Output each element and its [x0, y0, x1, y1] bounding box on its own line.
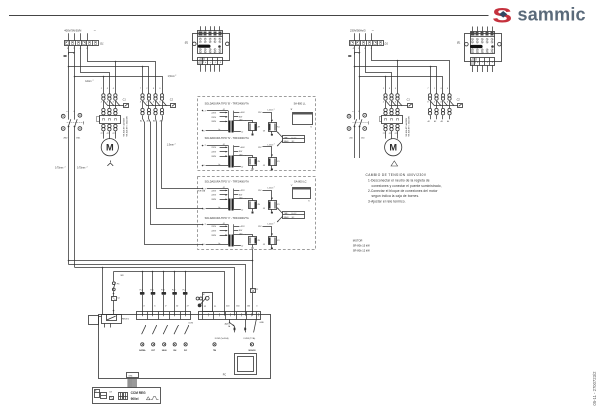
svg-text:13: 13	[176, 305, 179, 307]
svg-text:0: 0	[144, 305, 146, 307]
svg-text:0V: 0V	[263, 165, 266, 167]
wire mains stub R0 above D1	[354, 33, 356, 40]
ribbon cable hatch	[128, 378, 137, 388]
svg-text:2: 2	[274, 223, 275, 225]
earth = mark (left)	[64, 55, 67, 57]
svg-text:A2: A2	[434, 120, 436, 123]
svg-text:2: 2	[433, 102, 435, 104]
fuse Fu3	[163, 272, 165, 293]
svg-text:a: a	[352, 111, 354, 113]
svg-text:5: 5	[395, 88, 397, 90]
svg-text:0V: 0V	[263, 130, 266, 132]
svg-text:2T1: 2T1	[101, 133, 104, 135]
svg-text:'V': 'V'	[291, 185, 294, 187]
svg-text:4T2: 4T2	[389, 133, 392, 135]
spark gap assembly box	[203, 293, 213, 312]
svg-text:FUS2 (5x20 A): FUS2 (5x20 A)	[215, 337, 229, 340]
svg-text:0: 0	[203, 208, 205, 210]
main switch (left, 2-pole)	[61, 111, 83, 139]
svg-text:ZH: ZH	[258, 126, 261, 128]
svg-text:0: 0	[203, 131, 205, 133]
motor M1 circle (left)	[101, 139, 118, 156]
thermal overload relay F1' (right)	[380, 115, 403, 139]
svg-text:4: 4	[358, 111, 360, 113]
svg-text:220V: 220V	[211, 112, 216, 114]
svg-text:1-Desconectar el neutro de la: 1-Desconectar el neutro de la regleta de	[368, 179, 430, 183]
svg-text:42: 42	[223, 109, 225, 111]
svg-text:42: 42	[223, 187, 225, 189]
svg-text:0v: 0v	[241, 210, 243, 212]
svg-text:SR-80b BT 7,5A/230V: SR-80b BT 7,5A/230V	[125, 115, 128, 136]
svg-text:0: 0	[256, 305, 258, 307]
svg-text:AgSnO: AgSnO	[225, 322, 231, 325]
svg-text:2: 2	[363, 48, 366, 50]
svg-text:7: 7	[427, 88, 429, 90]
wire R-a vertical (x=354) D1 to switch	[354, 46, 356, 120]
svg-text:6: 6	[447, 102, 448, 104]
svg-text:C2: C2	[256, 289, 258, 291]
neutral hook arrow (right)	[355, 53, 359, 55]
svg-text:b: b	[205, 62, 207, 64]
motor voltage selector block 01 (right)	[465, 27, 502, 73]
border top rule	[9, 15, 489, 17]
svg-text:200: 200	[349, 138, 353, 140]
svg-text:+32V: +32V	[240, 190, 245, 192]
svg-text:1: 1	[146, 88, 147, 90]
transformer TR-V	[202, 223, 280, 250]
wire bus2 y=264.5 to strip2	[69, 265, 246, 316]
svg-text:8: 8	[427, 102, 428, 104]
svg-text:2: 2	[93, 80, 94, 82]
relay RELE1	[102, 315, 122, 324]
svg-text:2: 2	[87, 167, 88, 169]
svg-text:SR-80b BT 7,5A/230V: SR-80b BT 7,5A/230V	[408, 115, 411, 136]
svg-text:17: 17	[187, 305, 190, 307]
svg-text:A3: A3	[153, 120, 155, 123]
svg-text:0v: 0v	[218, 164, 220, 166]
svg-text:SA-800 LC: SA-800 LC	[294, 179, 307, 183]
svg-text:1: 1	[383, 88, 384, 90]
svg-text:SR-80b 12 kW: SR-80b 12 kW	[353, 248, 370, 252]
svg-text:Fu1: Fu1	[183, 290, 186, 292]
wire R3 vertical+bend to C1' pin3 / C2' pin4	[372, 46, 450, 94]
svg-text:0v: 0v	[241, 245, 243, 247]
wire mains stub L0 above D1	[68, 33, 70, 40]
svg-text:42: 42	[223, 144, 225, 146]
svg-text:SOLDADURA TIPO 'V' - TRF2/400V: SOLDADURA TIPO 'V' - TRF2/400V7A	[205, 216, 249, 220]
svg-text:1,5mm: 1,5mm	[267, 188, 273, 190]
wire bus3 y=267.3 relay feed	[75, 268, 235, 316]
svg-text:3: 3	[220, 62, 222, 64]
svg-text:conexiones y conectar el puent: conexiones y conectar el puente suminist…	[372, 184, 442, 188]
svg-text:'B': 'B'	[290, 109, 293, 111]
svg-text:2: 2	[274, 144, 275, 146]
svg-text:MR: MR	[121, 275, 125, 277]
svg-text:+T: +T	[203, 224, 206, 226]
display panel outline	[93, 388, 161, 404]
wire mains stub R2 above D1	[365, 33, 367, 40]
svg-text:4: 4	[153, 101, 154, 104]
svg-text:segun indica la caja de bornes: segun indica la caja de bornes.	[372, 194, 420, 198]
motor voltage selector block 01 (left)	[193, 26, 230, 71]
wire L-N switch to bottom bus	[68, 127, 70, 265]
svg-text:208V: 208V	[211, 199, 216, 201]
svg-text:12V: 12V	[109, 391, 113, 393]
svg-text:0v: 0v	[218, 243, 220, 245]
svg-text:SOLDADURA TIPO 'B' - TRF2/400V: SOLDADURA TIPO 'B' - TRF2/400V7A	[205, 101, 249, 105]
svg-text:30V: 30V	[239, 194, 243, 196]
svg-text:D1: D1	[100, 41, 104, 45]
svg-text:SR-80b 15 kW: SR-80b 15 kW	[353, 243, 370, 247]
relay contact AgSnO	[229, 319, 231, 322]
svg-text:220V: 220V	[211, 117, 216, 119]
svg-text:SR-80b BT 4A/400V: SR-80b BT 4A/400V	[123, 117, 126, 136]
svg-text:4T2: 4T2	[107, 133, 110, 135]
contactor C2 (left transformer feed)	[140, 88, 176, 115]
wire L-N vertical (x=68.2) D1 to switch	[68, 46, 70, 120]
wire mains stub L1 above D1	[74, 33, 76, 40]
delta connection symbol	[391, 161, 398, 166]
svg-text:+T: +T	[203, 145, 206, 147]
svg-text:0,75mm: 0,75mm	[55, 168, 63, 170]
svg-text:K1: K1	[277, 204, 279, 206]
wire mains stub R1 above D1	[359, 33, 361, 40]
svg-text:C4: C4	[117, 297, 119, 299]
svg-text:A1: A1	[140, 120, 142, 123]
svg-text:900el: 900el	[131, 397, 139, 401]
svg-text:K1: K1	[277, 161, 279, 163]
svg-text:5: 5	[154, 305, 156, 307]
svg-text:MAIN : BC: MAIN : BC	[284, 140, 295, 143]
svg-text:TME : LL/LC: TME : LL/LC	[284, 213, 297, 215]
svg-text:6: 6	[159, 102, 160, 104]
svg-text:A1: A1	[428, 120, 430, 123]
wire bus y=76.7 to C1 pin1 / C2 pin4	[75, 77, 163, 94]
svg-text:2: 2	[175, 75, 176, 77]
indicator panel SA-800 LL	[293, 113, 313, 125]
svg-text:3: 3	[107, 88, 109, 90]
terminal strip X2 (right)	[199, 312, 261, 320]
svg-text:12V: 12V	[258, 147, 262, 149]
svg-text:3: 3	[440, 88, 442, 90]
svg-text:2-Conectar el bloque de conexi: 2-Conectar el bloque de conexiones del m…	[368, 189, 438, 193]
svg-text:+32V: +32V	[240, 226, 245, 228]
svg-text:05-11 - 2700723/2: 05-11 - 2700723/2	[592, 371, 597, 406]
svg-text:SIGNON: SIGNON	[248, 350, 256, 352]
svg-text:SA-800 LL: SA-800 LL	[294, 101, 307, 105]
svg-text:C2: C2	[170, 99, 174, 102]
svg-text:+40V: +40V	[240, 147, 245, 149]
svg-text:1,5mm: 1,5mm	[168, 76, 175, 78]
switch contacts row (below strip X1)	[142, 326, 146, 334]
transformer TR-B	[202, 109, 280, 136]
wire bus y=66.7 to C2 pins 1-2	[69, 67, 149, 94]
svg-text:208V: 208V	[211, 156, 216, 158]
svg-text:220V: 220V	[211, 226, 216, 228]
svg-text:J: J	[487, 62, 489, 64]
wire right switch leg b below	[359, 127, 361, 158]
svg-text:30V: 30V	[239, 117, 243, 119]
wire bus y=66.5 to C2' pins 1-2	[355, 67, 437, 94]
svg-text:160: 160	[236, 305, 240, 307]
indicator panel SA-800 LC	[293, 188, 311, 199]
Sammic logo diamond	[499, 11, 507, 18]
svg-text:1,5mm: 1,5mm	[267, 223, 273, 225]
svg-text:2: 2	[274, 187, 275, 189]
svg-text:6T3: 6T3	[113, 133, 116, 135]
svg-text:Ø1: Ø1	[184, 42, 189, 45]
wire L3 vertical+bend (x=87.4) to C1 pin3 / C2 pin3	[88, 46, 156, 94]
svg-text:COM: COM	[188, 323, 193, 325]
contactor C2' (right)	[427, 88, 462, 115]
svg-text:0,75mm: 0,75mm	[77, 168, 85, 170]
svg-text:220V: 220V	[211, 147, 216, 149]
svg-text:12V: 12V	[258, 112, 262, 114]
svg-text:30V: 30V	[239, 230, 243, 232]
selector legend table 2	[277, 207, 305, 222]
wire mains stub R3 above D1	[371, 33, 373, 40]
transformer TR-N	[202, 144, 280, 171]
svg-text:TME : LL/LC: TME : LL/LC	[284, 137, 297, 139]
wire C2 output 4 to transformer box (bend y=244.3)	[143, 116, 203, 245]
svg-text:3: 3	[389, 88, 391, 90]
svg-text:b: b	[477, 62, 479, 64]
svg-text:PUR 09A: PUR 09A	[197, 189, 206, 192]
svg-text:32: 32	[204, 306, 207, 308]
svg-text:0: 0	[203, 244, 205, 246]
contactor C1 (left motor)	[100, 88, 129, 115]
svg-text:30V: 30V	[239, 151, 243, 153]
dashed enclosure box 1 (SOLDADURA B/N)	[198, 97, 316, 171]
svg-text:Fu5: Fu5	[150, 290, 153, 292]
svg-text:Fu2: Fu2	[172, 290, 175, 292]
svg-text:400V/3N-50/N: 400V/3N-50/N	[64, 29, 81, 33]
svg-text:2: 2	[382, 102, 384, 104]
svg-text:2M2: 2M2	[63, 138, 68, 140]
svg-text:9: 9	[165, 305, 167, 307]
svg-text:12V: 12V	[258, 190, 262, 192]
svg-text:MOTOR: MOTOR	[353, 239, 363, 243]
svg-text:2: 2	[175, 144, 176, 146]
board transformer square	[235, 354, 257, 375]
svg-text:0v: 0v	[241, 166, 243, 168]
svg-text:K1: K1	[277, 126, 279, 128]
svg-text:220V: 220V	[211, 195, 216, 197]
wire L1 vertical (x=74.6) D1 to switch	[74, 46, 76, 120]
svg-text:a: a	[66, 111, 68, 113]
svg-text:ZH: ZH	[258, 204, 261, 206]
svg-text:Fu4: Fu4	[140, 290, 143, 292]
wire bus4 y=271.5 fuse feeder	[114, 272, 225, 316]
svg-text:2T1: 2T1	[383, 133, 386, 135]
wire mains stub L3 above D1	[87, 33, 89, 40]
svg-text:6: 6	[395, 102, 396, 104]
svg-text:208V: 208V	[211, 235, 216, 237]
fuse F3 branch	[113, 272, 115, 282]
motor M2 circle (right)	[385, 139, 402, 156]
svg-text:MAIN : BC: MAIN : BC	[284, 216, 295, 219]
svg-text:2: 2	[274, 109, 275, 111]
svg-text:5: 5	[159, 88, 161, 90]
svg-text:K1: K1	[277, 240, 279, 242]
svg-text:12mm: 12mm	[85, 81, 91, 83]
fuse Fu5	[152, 272, 154, 293]
svg-text:ONI: ONI	[173, 350, 177, 352]
contactor C1' (right motor)	[382, 88, 413, 115]
svg-text:220V: 220V	[211, 152, 216, 154]
svg-text:220V: 220V	[211, 231, 216, 233]
earth = mark (right)	[348, 55, 351, 57]
svg-text:1: 1	[434, 88, 435, 90]
svg-text:3: 3	[153, 88, 155, 90]
svg-text:SOLDADURA TIPO 'U' - TRF2/400V: SOLDADURA TIPO 'U' - TRF2/400V7A	[205, 179, 249, 183]
svg-text:220V: 220V	[211, 190, 216, 192]
wire R-b vertical (x=359.4) D1 to switch	[359, 46, 361, 120]
wire bus1 y=261	[69, 260, 253, 262]
svg-text:C1: C1	[123, 99, 127, 102]
svg-text:1M1: 1M1	[76, 138, 81, 140]
fuse Fu4	[142, 272, 144, 293]
board terminal post SIGNON	[250, 343, 253, 346]
svg-text:1,5mm: 1,5mm	[167, 145, 174, 147]
label relay rating rotated (left)	[123, 115, 129, 136]
svg-text:M: M	[106, 143, 114, 153]
svg-text:SELB: SELB	[162, 350, 167, 352]
svg-text:C1: C1	[407, 99, 411, 102]
svg-text:S: S	[308, 201, 310, 203]
svg-text:~: ~	[94, 28, 97, 33]
svg-text:5A: 5A	[228, 325, 231, 328]
svg-text:CAMBIO DE TENSION 400V/230V: CAMBIO DE TENSION 400V/230V	[366, 173, 427, 177]
svg-text:6T3: 6T3	[395, 133, 398, 135]
svg-text:M: M	[389, 143, 397, 153]
wire transformer V output drop to fuse C2	[252, 249, 254, 289]
svg-text:FUS3 (T2 A): FUS3 (T2 A)	[244, 337, 256, 340]
svg-text:C2: C2	[457, 99, 461, 102]
svg-text:0: 0	[203, 165, 205, 167]
svg-text:3: 3	[492, 62, 494, 64]
svg-text:3-Ajustar el rele termico.: 3-Ajustar el rele termico.	[368, 199, 406, 203]
wire C2 output 3 to transformer box (bend y=224.3)	[149, 116, 203, 225]
svg-text:2: 2	[65, 167, 66, 169]
main switch (right, 2-pole)	[347, 111, 368, 139]
svg-text:+T: +T	[203, 111, 206, 113]
svg-text:230V/50Hz/3: 230V/50Hz/3	[350, 29, 366, 33]
svg-text:0V: 0V	[263, 244, 266, 246]
dashed enclosure box 2 (SOLDADURA U/V)	[198, 177, 316, 250]
svg-text:RELE1: RELE1	[122, 319, 130, 321]
svg-text:F3: F3	[117, 284, 120, 286]
svg-text:8: 8	[140, 102, 141, 104]
svg-text:21: 21	[214, 306, 217, 308]
wire mains stub L2 above D1	[80, 33, 82, 40]
svg-text:6: 6	[113, 102, 114, 104]
svg-text:1: 1	[101, 88, 102, 90]
svg-text:TIM: TIM	[213, 350, 217, 352]
svg-text:12V: 12V	[258, 226, 262, 228]
control board PC outline	[99, 315, 271, 379]
fuse Fu1	[185, 272, 187, 293]
connector GN1	[127, 373, 139, 378]
svg-text:SOLDADURA TIPO 'N' - TRF2/400V: SOLDADURA TIPO 'N' - TRF2/400V7A	[205, 136, 249, 140]
svg-text:208V: 208V	[211, 121, 216, 123]
svg-text:A3: A3	[441, 120, 443, 123]
svg-text:Ø1: Ø1	[456, 42, 461, 45]
svg-text:CCM REG: CCM REG	[131, 391, 147, 395]
svg-text:DIC: DIC	[184, 350, 188, 352]
wire right switch leg a below	[354, 127, 356, 158]
wire L1 switch to bottom bus	[74, 127, 76, 267]
fuse Fu2	[174, 272, 176, 293]
star connection symbol	[110, 161, 112, 163]
stubs below C2' row2	[430, 115, 432, 119]
svg-text:4: 4	[107, 101, 108, 104]
svg-text:7: 7	[140, 88, 142, 90]
thermal overload relay F1 (left)	[97, 115, 121, 139]
Sammic logo S mark	[492, 5, 512, 28]
svg-text:r: r	[210, 62, 211, 64]
svg-text:GND: GND	[259, 322, 264, 324]
svg-text:ZH: ZH	[258, 240, 261, 242]
transformer TR-U	[202, 187, 280, 214]
svg-text:160: 160	[247, 305, 251, 307]
svg-text:SR-80b BT 4A/400V: SR-80b BT 4A/400V	[405, 117, 408, 136]
board terminal post TIM	[213, 343, 216, 346]
svg-text:4: 4	[389, 101, 390, 104]
label relay rating rotated (right)	[405, 115, 411, 136]
svg-text:D1: D1	[385, 41, 389, 45]
svg-text:0v: 0v	[241, 132, 243, 134]
svg-text:PC: PC	[223, 374, 227, 377]
svg-text:42: 42	[223, 223, 225, 225]
svg-text:SATMA: SATMA	[139, 349, 146, 352]
svg-text:S: S	[310, 126, 312, 128]
svg-text:+40V: +40V	[240, 112, 245, 114]
svg-text:1,5mm: 1,5mm	[267, 110, 273, 112]
wire R2 vertical+bend to C1' pin2	[366, 46, 392, 94]
svg-text:0v: 0v	[218, 207, 220, 209]
selector legend table 1	[277, 132, 305, 147]
svg-text:ZH: ZH	[258, 161, 261, 163]
svg-text:J: J	[215, 62, 217, 64]
svg-text:sammic: sammic	[518, 5, 586, 25]
wire C2 output 2 to transformer box (bend y=208.5)	[156, 116, 203, 209]
svg-text:5: 5	[113, 88, 115, 90]
svg-text:0V: 0V	[263, 208, 266, 210]
svg-text:2: 2	[145, 102, 147, 104]
terminal block D1 (mains input 400V)	[65, 41, 99, 46]
svg-text:2: 2	[100, 102, 102, 104]
svg-text:Ø: Ø	[203, 294, 205, 296]
svg-text:A2: A2	[147, 120, 149, 123]
svg-text:160: 160	[361, 138, 365, 140]
wire bus y=76.9 to C1' pin1 / C2' pin3	[360, 77, 443, 94]
svg-text:4: 4	[440, 101, 441, 104]
fuse lead right	[245, 319, 247, 327]
svg-text:4: 4	[73, 111, 75, 113]
svg-text:200: 200	[226, 305, 230, 307]
svg-text:0v: 0v	[218, 129, 220, 131]
svg-text:5: 5	[447, 88, 449, 90]
svg-text:Fu3: Fu3	[161, 290, 164, 292]
switch blade right	[254, 319, 257, 332]
terminal strip X1 (left)	[137, 312, 191, 320]
board terminal posts (left group)	[141, 343, 144, 346]
svg-text:1,5mm: 1,5mm	[267, 144, 273, 146]
terminal block D1 (mains input 230V)	[350, 41, 384, 46]
wire L2 vertical+bend (x=81) to C1 pin2	[81, 46, 110, 94]
svg-text:A4: A4	[447, 120, 449, 123]
